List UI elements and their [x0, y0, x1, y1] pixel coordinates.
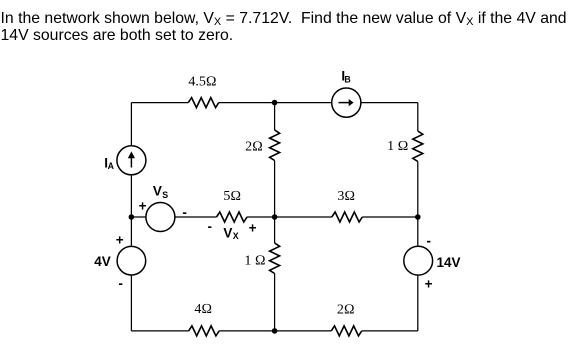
svg-text:S: S: [162, 190, 168, 200]
svg-text:1 Ω: 1 Ω: [387, 139, 408, 154]
label IA: [104, 156, 114, 172]
wire middle-branch left stub: [131, 216, 146, 218]
current source IA: [117, 146, 146, 175]
svg-text:1 Ω: 1 Ω: [244, 253, 265, 268]
wire bottom-left segment: [131, 330, 188, 332]
junction node top-middle: [272, 100, 278, 106]
wire middle column lower stub: [274, 217, 276, 243]
wire right top segment: [417, 103, 419, 131]
resistor 1ohm right column: [413, 131, 423, 162]
svg-text:-: -: [208, 219, 213, 234]
wire top-left segment: [131, 102, 188, 104]
svg-text:-: -: [427, 234, 432, 249]
junction node center: [272, 214, 278, 220]
svg-text:-: -: [118, 276, 123, 291]
resistor 2ohm bottom: [331, 326, 361, 336]
wire top-middle segment: [219, 102, 332, 104]
svg-text:3Ω: 3Ω: [337, 189, 355, 204]
label Vx: [223, 226, 238, 241]
wire between center node and 3ohm: [275, 216, 332, 218]
wire top-right segment: [361, 102, 418, 104]
resistor 4.5ohm top: [188, 98, 219, 108]
wire between 3ohm and right node: [362, 216, 418, 218]
svg-text:+: +: [425, 277, 433, 292]
label Vs: [153, 184, 168, 200]
svg-text:+: +: [139, 199, 147, 214]
svg-text:V: V: [153, 184, 162, 199]
wire left bottom segment: [130, 275, 132, 331]
junction node right-middle: [415, 214, 421, 220]
svg-text:4Ω: 4Ω: [194, 302, 212, 317]
wire middle column upper segment: [274, 161, 276, 218]
svg-text:+: +: [249, 221, 257, 236]
wire left middle segment: [130, 175, 132, 246]
svg-text:A: A: [108, 161, 115, 171]
junction node left-middle: [129, 214, 135, 220]
wire bottom-right segment: [362, 330, 418, 332]
resistor 1ohm middle column: [270, 243, 280, 274]
svg-text:X: X: [233, 231, 239, 241]
svg-text:2Ω: 2Ω: [337, 302, 355, 317]
wire right bottom segment: [417, 275, 419, 331]
wire middle column top stub: [274, 103, 276, 130]
svg-text:+: +: [116, 233, 124, 248]
resistor 5ohm: [217, 212, 248, 222]
svg-text:B: B: [344, 74, 350, 84]
svg-text:4V: 4V: [94, 254, 111, 269]
junction node bottom-middle: [272, 328, 278, 334]
wire between 5ohm and center node: [247, 216, 275, 218]
label IB: [341, 69, 350, 85]
wire right middle segment: [417, 162, 419, 247]
resistor 2ohm middle column: [270, 130, 280, 161]
svg-text:2Ω: 2Ω: [245, 139, 263, 154]
current source IB: [332, 88, 361, 117]
resistor 4ohm bottom: [189, 326, 220, 336]
wire middle column bottom segment: [274, 274, 276, 331]
svg-text:5Ω: 5Ω: [223, 189, 241, 204]
voltage source 14V: [404, 246, 433, 275]
voltage source 4V: [117, 246, 146, 275]
wire left top segment: [130, 103, 132, 146]
voltage source Vs: [146, 203, 175, 232]
svg-text:4.5Ω: 4.5Ω: [188, 75, 216, 90]
wire bottom-middle segment: [219, 330, 331, 332]
resistor 3ohm: [332, 212, 362, 222]
wire between Vs and 5ohm: [175, 216, 217, 218]
svg-text:V: V: [223, 226, 232, 241]
svg-text:14V: 14V: [437, 255, 461, 270]
